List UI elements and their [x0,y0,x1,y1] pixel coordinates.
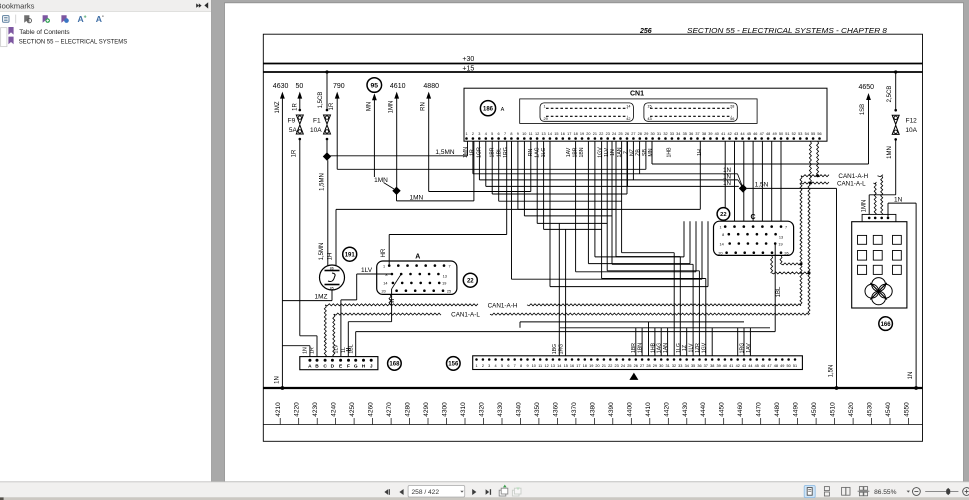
keypad body (component 166) [852,222,907,308]
wire 1N c to junction [486,141,739,186]
previous view icon [499,485,508,496]
node 4610 terminal [390,83,406,99]
wire 1N a to junction [473,141,742,185]
node 50 terminal [296,83,304,99]
+30 supply bus [263,63,922,65]
viewer canvas background [212,0,969,482]
connector A body [377,261,457,294]
keypad buttons 3x3 [858,235,902,274]
view mode icon active [804,485,815,497]
wire 1AG to connector C [550,141,708,286]
bookmark tree expander [1,28,7,47]
bookmarks sidebar [0,0,212,482]
wire 1BL from C pin19 to strip pin G [356,244,782,361]
keypad connector strip [862,214,896,222]
connector CN1 pin field left [540,103,633,121]
inline connector marks [346,300,394,351]
CAN drop to strip pins C and D [324,305,326,360]
junction diamond 1,5MN [323,152,331,160]
junction on N bus [281,386,285,390]
keypad fan rosette [865,278,892,305]
CAN1-A-L twisted pair from CN1 [809,141,811,183]
fuse F12 10A [892,109,917,141]
wire 1MZ vertical [275,98,282,388]
CAN1-A-H twisted pair from CN1 [817,141,819,176]
zoom slider [925,491,958,493]
wire 1LV from A pin8 to strip pin E [341,267,392,360]
component 166 circle [879,317,893,331]
wire RG to connector C [512,141,703,279]
bottom window edge strip [0,497,969,500]
wire 1,5CB from +15 [318,70,329,109]
node 4880 terminal [423,83,439,99]
wire 1SB [652,100,869,165]
wire 1MZ relay to bus [282,290,332,301]
wire 1H relay feed [328,141,701,265]
component 95 circle [367,78,382,93]
connector CN1 pins 1-56 [465,132,821,140]
letter strip pins [308,359,373,370]
wires CN1 to connector C pins 1-7 [725,141,781,221]
coordinate grid numbers 4210-4550 [275,402,910,425]
wire 1,5MN horizontal to CN1 pin 1 [327,141,468,156]
+15 supply bus [263,71,922,73]
wire 1BN to connector C [595,141,684,257]
fuse F9 5A [288,109,304,141]
CAN branch to connector C pins [780,255,782,264]
component 191 circle [343,247,357,261]
CAN1-A-L right segment [801,182,829,184]
node 790 terminal [333,83,345,99]
wire GV web [492,141,627,194]
node 4650 terminal [859,84,875,100]
CAN branch to connector A [389,294,391,304]
wire from A pin9 to strip pin F [348,274,401,360]
node 4630 terminal [273,83,289,99]
component 168 circle [388,357,402,371]
wire 1R from 790 [329,98,646,169]
wire 1GV web [499,141,675,359]
sidebar collapse icons [196,2,208,8]
wire 1AN web [537,141,699,359]
svg-text:Bookmarks: Bookmarks [0,2,35,11]
bookmark: Table of Contents [8,27,70,36]
bottom toolbar [0,482,969,498]
wire 1LV web [518,141,680,359]
junction diamond 1N [739,184,747,192]
ground/N bottom bus [263,387,922,389]
strip labels 1BG 1RG [552,344,564,355]
wire 1MN diagonal to junction [374,177,394,189]
wire Z web [544,141,706,359]
wire 1N keypad to bus [888,196,918,390]
wire HR from A pin1 [381,141,507,265]
connector C pins [718,225,788,255]
connector C body [714,221,794,255]
wire MN from component 95 [366,93,376,177]
wire bundle to numbered strip [520,322,770,360]
next view icon (disabled) [512,487,521,496]
component 156 circle [447,357,461,371]
component 22 circle left [463,273,477,287]
view mode icon two-page [842,487,850,495]
CAN junction dots right [816,174,819,177]
connector CN1 outer box [464,88,827,141]
1N labels [723,167,731,187]
wire 1MN return to CN1 pin 2 [397,141,474,201]
sidebar toolbar icons [3,14,104,24]
wire 1AV2 to connector C [588,141,690,263]
connector X1 numbered strip [473,356,803,370]
connector CN1 inner housing [520,99,757,124]
svg-text:+: + [84,14,87,20]
schematic frame border [263,34,922,441]
wire 1N b to junction [479,141,742,186]
fuse F1 10A [310,109,330,141]
junction diamond 1MN [392,187,400,195]
svg-text:86.55%: 86.55% [874,489,897,496]
component 186 circle [480,101,495,116]
svg-text:-: - [102,14,104,20]
CAN1-A-L lower run [334,313,441,315]
wire 1,5MN to junction [326,140,328,153]
wire 1MN from 4610 [389,98,397,187]
CN1 wire labels [463,147,703,158]
wire SB pin [645,141,647,169]
connector A pins [381,264,451,293]
strip wire labels [631,342,752,353]
relay K1 (component 191) [320,265,345,291]
wire 2,5CB from +15 [887,70,897,109]
zoom in button [963,488,969,496]
zoom out button [913,488,921,496]
wire 1N to strip pin A [282,346,310,360]
wire 1R upper [292,98,299,111]
CAN1-A-H right segment [801,175,829,177]
connector CN1 pin field right [644,103,737,121]
nav: previous page buttons [384,489,403,495]
svg-text:Table of Contents: Table of Contents [19,29,70,36]
bookmark: SECTION 55 [8,37,127,46]
coordinate scale baseline [263,424,922,426]
wire 1,5MN down to relay [319,160,328,265]
view mode icon scroll [824,487,829,496]
view mode icon two-page scroll [858,487,870,496]
numbered strip pins 1-51 [475,358,797,368]
ground marker triangle [629,373,638,380]
wire 1N web [524,141,693,359]
CAN vertical pair to lower bus [800,176,802,305]
svg-text:258 / 422: 258 / 422 [412,489,440,496]
wire 1MN from F12 to keypad [862,140,896,218]
nav: next page buttons [472,489,491,495]
svg-text:SECTION 55 -- ELECTRICAL SYSTE: SECTION 55 -- ELECTRICAL SYSTEMS [19,38,128,45]
wire 1,5N to N bus [747,182,838,390]
document page [225,3,964,482]
wire 1R to strip pin B [291,140,317,360]
wire MN pin30 to 1SB line [651,141,653,164]
page number input box [408,485,465,497]
component 22 circle right [717,208,730,221]
wire RN from 4880 [421,98,531,191]
wire 1LG to connector C [576,141,696,272]
keypad pins [868,217,871,220]
connector X letter strip [300,357,378,370]
letter strip wire labels [303,344,355,354]
CAN1-A-H lower run [325,304,478,306]
